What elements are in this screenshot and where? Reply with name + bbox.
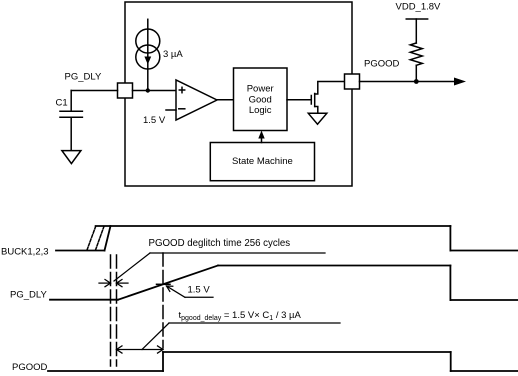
wire comparator output (217, 99, 234, 101)
svg-text:C1: C1 (56, 98, 68, 109)
svg-text:PGOOD deglitch time 256 cycles: PGOOD deglitch time 256 cycles (149, 238, 291, 249)
wire PGOOD output (360, 81, 456, 83)
IC outline box (125, 2, 352, 186)
svg-text:1.5 V: 1.5 V (188, 284, 211, 295)
ground MOSFET source (308, 113, 327, 124)
svg-text:Power: Power (247, 84, 274, 95)
break marks BUCK edge (87, 226, 104, 251)
pin pad PGOOD (345, 74, 360, 89)
arrow State Machine to Power Good Logic (258, 131, 264, 143)
svg-text:PG_DLY: PG_DLY (10, 289, 47, 300)
waveform PGOOD (48, 352, 518, 371)
svg-text:PGOOD: PGOOD (364, 59, 400, 70)
svg-text:BUCK1,2,3: BUCK1,2,3 (1, 246, 49, 257)
current source I1 3uA (136, 19, 160, 90)
svg-text:State Machine: State Machine (232, 156, 293, 167)
svg-text:VDD_1.8V: VDD_1.8V (396, 1, 442, 12)
svg-text:Logic: Logic (249, 105, 272, 116)
cursor dashed line t0 (110, 255, 112, 366)
ground C1 (62, 151, 81, 164)
dimension arrows deglitch interval (99, 280, 128, 287)
op-amp comparator U1 (166, 80, 217, 120)
wire PG_DLY internal (133, 90, 177, 92)
waveform BUCK1,2,3 (56, 226, 518, 251)
dimension arrow tpgood_delay (117, 346, 164, 353)
leader 1.5 V callout (167, 286, 214, 297)
tick 1.5V crossing (157, 283, 171, 285)
block State Machine (210, 143, 314, 181)
power rail VDD_1.8V (406, 18, 427, 20)
arrowhead PGOOD output (454, 78, 466, 86)
node PGOOD junction (414, 79, 419, 84)
leader deglitch callout (114, 253, 325, 281)
svg-text:1.5 V: 1.5 V (143, 115, 166, 126)
svg-text:PGOOD: PGOOD (12, 362, 48, 373)
leader tpgood callout (142, 323, 340, 350)
waveform PG_DLY (50, 266, 518, 301)
svg-text:3 µA: 3 µA (163, 49, 183, 60)
block Power Good Logic (234, 68, 288, 131)
capacitor C1 (60, 91, 82, 151)
node PG_DLY junction (146, 88, 150, 92)
pin pad PG_DLY (118, 83, 133, 98)
svg-text:PG_DLY: PG_DLY (65, 72, 102, 83)
cursor dashed line t1 (116, 255, 118, 366)
wire PG_DLY external (71, 90, 117, 92)
cursor dashed line t2 (162, 253, 164, 348)
resistor pull-up (410, 19, 422, 82)
svg-text:Good: Good (249, 94, 272, 105)
transistor Q1 open-drain MOSFET (287, 82, 345, 114)
